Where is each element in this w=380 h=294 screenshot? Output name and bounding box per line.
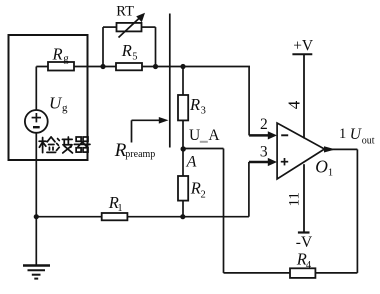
svg-text:R: R — [189, 95, 200, 114]
svg-text:RT: RT — [116, 3, 134, 19]
svg-text:+V: +V — [293, 38, 314, 55]
svg-text:2: 2 — [201, 189, 206, 200]
svg-text:R: R — [190, 178, 201, 197]
svg-text:1: 1 — [339, 126, 346, 142]
svg-text:1: 1 — [117, 203, 122, 214]
svg-text:2: 2 — [260, 116, 268, 133]
svg-text:g: g — [62, 102, 68, 114]
svg-text:5: 5 — [132, 51, 137, 62]
svg-text:out: out — [362, 135, 375, 146]
svg-text:A: A — [208, 127, 220, 144]
svg-text:A: A — [186, 154, 197, 171]
svg-text:g: g — [63, 52, 69, 64]
svg-text:1: 1 — [328, 167, 333, 178]
svg-text:4: 4 — [285, 100, 304, 109]
svg-text:4: 4 — [306, 260, 312, 271]
svg-text:3: 3 — [201, 106, 206, 117]
svg-text:R: R — [52, 44, 63, 63]
svg-text:U: U — [189, 127, 200, 144]
svg-text:-V: -V — [296, 234, 313, 251]
svg-text:3: 3 — [260, 144, 268, 161]
svg-text:R: R — [121, 41, 132, 60]
svg-text:11: 11 — [287, 192, 303, 206]
svg-text:preamp: preamp — [125, 149, 155, 160]
svg-text:O: O — [315, 156, 328, 176]
svg-text:U: U — [49, 93, 63, 112]
